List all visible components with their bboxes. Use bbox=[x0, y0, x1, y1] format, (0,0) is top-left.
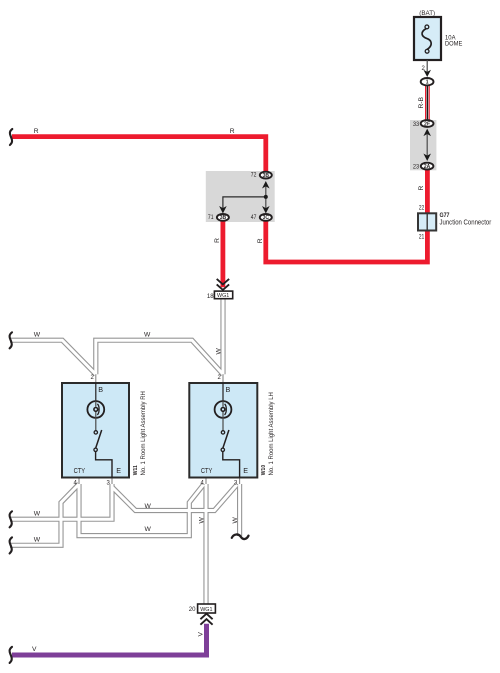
svg-text:3C: 3C bbox=[263, 215, 270, 221]
svg-text:23: 23 bbox=[413, 163, 420, 171]
svg-text:21: 21 bbox=[419, 234, 425, 240]
svg-text:W: W bbox=[215, 348, 222, 355]
svg-text:72: 72 bbox=[251, 172, 257, 178]
svg-text:3B: 3B bbox=[263, 173, 270, 179]
svg-text:Junction Connector: Junction Connector bbox=[440, 219, 493, 227]
svg-text:CTY: CTY bbox=[74, 467, 86, 475]
svg-text:3B: 3B bbox=[220, 215, 227, 221]
svg-text:W: W bbox=[198, 517, 205, 524]
svg-text:B: B bbox=[226, 385, 231, 394]
svg-text:DOME: DOME bbox=[445, 40, 462, 48]
svg-text:18: 18 bbox=[207, 293, 214, 300]
svg-text:R-B: R-B bbox=[418, 96, 425, 108]
svg-text:WG1: WG1 bbox=[217, 293, 229, 299]
svg-text:V: V bbox=[198, 632, 205, 637]
svg-text:W: W bbox=[34, 511, 41, 518]
svg-text:R: R bbox=[214, 238, 221, 243]
svg-text:WG1: WG1 bbox=[200, 607, 212, 613]
svg-text:2F: 2F bbox=[424, 121, 430, 127]
svg-text:V: V bbox=[32, 646, 37, 653]
svg-text:47: 47 bbox=[251, 215, 257, 221]
svg-text:W: W bbox=[145, 503, 152, 510]
svg-text:1: 1 bbox=[426, 80, 429, 86]
svg-text:71: 71 bbox=[208, 215, 214, 221]
svg-text:(BAT): (BAT) bbox=[419, 10, 435, 17]
svg-text:R: R bbox=[418, 186, 425, 191]
svg-text:W: W bbox=[145, 526, 152, 533]
svg-text:W: W bbox=[34, 537, 41, 544]
svg-text:W: W bbox=[34, 332, 41, 339]
svg-text:No. 1 Room Light Assembly RH: No. 1 Room Light Assembly RH bbox=[141, 391, 147, 475]
svg-text:B: B bbox=[98, 385, 103, 394]
svg-text:22: 22 bbox=[419, 205, 425, 211]
svg-text:33: 33 bbox=[413, 121, 420, 129]
svg-text:W: W bbox=[144, 332, 151, 339]
svg-text:E: E bbox=[116, 466, 121, 475]
svg-text:20: 20 bbox=[189, 606, 196, 613]
svg-text:W11: W11 bbox=[133, 465, 139, 475]
svg-text:R: R bbox=[230, 128, 235, 135]
svg-text:R: R bbox=[34, 128, 39, 135]
svg-text:G77: G77 bbox=[440, 212, 451, 220]
svg-text:2A: 2A bbox=[424, 164, 431, 170]
svg-text:CTY: CTY bbox=[201, 467, 213, 475]
svg-text:W10: W10 bbox=[261, 465, 267, 475]
svg-text:E: E bbox=[243, 466, 248, 475]
svg-text:R: R bbox=[257, 238, 264, 243]
svg-text:No. 1 Room Light Assembly LH: No. 1 Room Light Assembly LH bbox=[269, 392, 275, 475]
svg-text:W: W bbox=[232, 517, 239, 524]
